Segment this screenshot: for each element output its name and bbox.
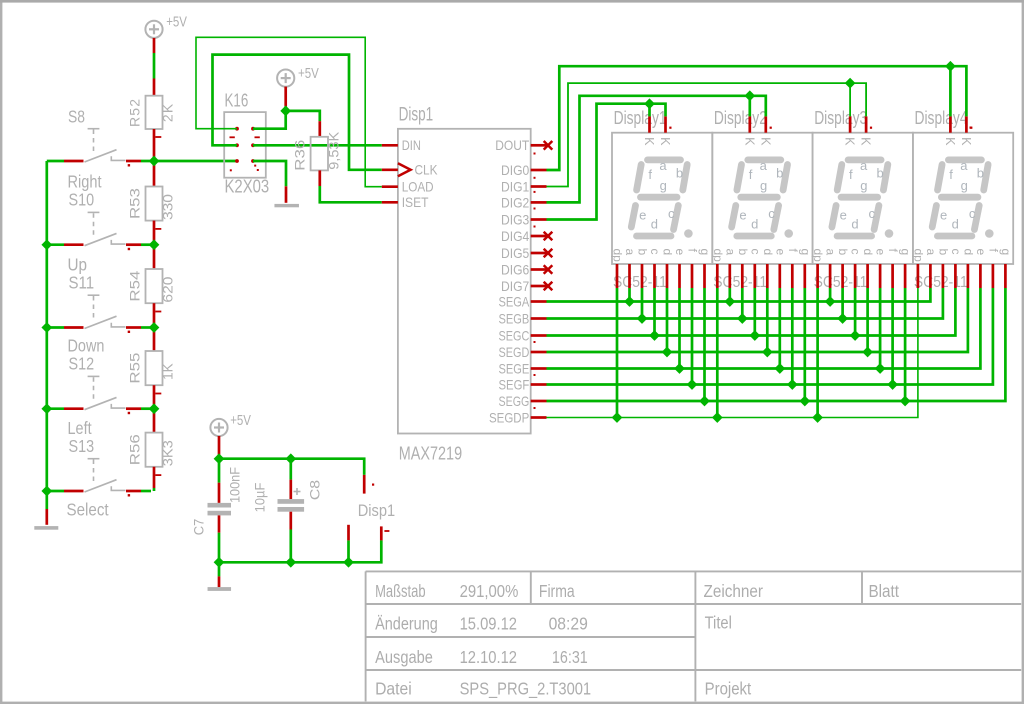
pin K K common cathodes (Display1) [650,116,666,132]
wire R53 bottom to junction [153,221,156,245]
wire R55 bottom to junction [153,385,156,409]
svg-text:DIG1: DIG1 [501,178,529,194]
pin DIG0 (MAX7219 right) [531,169,547,172]
no-connect X (DIG6) [544,265,553,274]
no-connect X (DIG7) [544,282,553,291]
svg-text:330: 330 [160,194,176,220]
junction SEGG at x=704 [699,396,710,407]
wire K16 pin1b to +5V [253,111,286,129]
junction SEGF at x=692 [687,379,698,390]
junction SEGB at x=742 [737,313,748,324]
svg-text:3K3: 3K3 [160,440,176,466]
svg-text:e: e [739,208,746,223]
svg-text:Display1: Display1 [614,108,667,128]
junction resistor column y=244.7 [149,239,160,250]
svg-text:b: b [836,249,850,256]
svg-text:e: e [874,249,888,256]
svg-text:SEGF: SEGF [499,376,530,392]
wire left bus vertical [45,161,48,491]
svg-text:c: c [668,206,675,221]
pin number specks (MAX7219) [534,153,536,410]
svg-text:Down: Down [68,336,105,356]
pin labels K K (Display1) [642,137,672,146]
svg-text:+5V: +5V [230,413,251,429]
svg-text:K: K [843,137,857,146]
svg-text:Zeichner: Zeichner [704,581,764,601]
junction SEGDP at x=717 [712,412,723,423]
wire SEGA net [547,288,931,302]
pin CLK (MAX7219 left) [382,168,398,171]
junction SEGE at x=880 [875,363,886,374]
wire SEGF net [547,288,993,385]
svg-text:SEGDP: SEGDP [489,409,529,425]
pin SEGC (MAX7219 right) [531,334,547,337]
resistor R52 [146,96,163,129]
pin DIG6 (MAX7219 right) [531,268,547,271]
resistor R54 [146,269,163,303]
junction SEGF at x=893 [887,379,898,390]
pin number speck (Display3 K pins) [870,127,872,129]
wire K16 pin3b to ground [253,161,286,203]
pin K16 row3 right [251,159,255,163]
svg-text:ISET: ISET [402,194,429,210]
svg-text:a: a [860,158,868,173]
svg-text:9,53K: 9,53K [326,131,342,170]
svg-text:g: g [999,249,1013,256]
pin DIG1 (MAX7219 right) [531,185,547,188]
svg-text:12.10.12: 12.10.12 [460,647,517,667]
svg-text:g: g [961,178,968,193]
svg-text:LOAD: LOAD [402,179,434,195]
pin wire R52 bottom [153,129,156,165]
svg-text:Display3: Display3 [814,108,867,128]
junction DIG1 at Display3 [845,78,856,89]
svg-text:c: c [949,249,963,255]
capacitor C8 [278,459,305,563]
svg-text:Maßstab: Maßstab [375,581,426,601]
junction SEGD at x=667 [662,347,673,358]
pin DIN (MAX7219 left) [382,144,398,147]
svg-text:Display4: Display4 [915,108,968,128]
pin number speck (Display2 K pins) [770,127,772,129]
svg-text:620: 620 [160,276,176,302]
wire junction to R54 top [153,248,156,269]
svg-text:Ausgabe: Ausgabe [375,647,433,667]
switch S12 [47,376,151,414]
wire CLK loop (K16 pin2a to MAX7219 CLK) [213,55,382,170]
wire S8 row to K16 pin [141,160,237,163]
svg-text:DIG6: DIG6 [501,261,529,277]
wire junction to R53 top [153,165,156,187]
svg-text:b: b [676,166,683,181]
svg-text:dp: dp [711,249,725,263]
svg-text:R55: R55 [127,352,143,383]
junction DIG0 at Display4 [945,61,956,72]
connector K16 box [224,112,266,178]
wire Select row to ground [45,491,48,525]
wire junction to R55 top [153,331,156,351]
resistor R36 [311,137,328,171]
junction rail at C8 [285,453,296,464]
wire rail to ground [218,562,221,587]
svg-text:Änderung: Änderung [375,614,438,634]
svg-text:15.09.12: 15.09.12 [460,614,517,634]
junction SEGA at x=830 [825,296,836,307]
junction SEGA at x=630 [624,296,635,307]
svg-text:K: K [943,137,957,146]
svg-text:DIG4: DIG4 [501,228,529,244]
svg-text:Firma: Firma [539,581,575,601]
pin DIG7 (MAX7219 right) [531,285,547,288]
pin mark R54 [155,311,161,313]
pin K16 row3 left [235,159,239,163]
svg-text:e: e [840,208,847,223]
svg-text:b: b [736,249,750,256]
svg-text:a: a [960,158,968,173]
svg-text:SC52-11: SC52-11 [713,274,767,291]
svg-text:R53: R53 [127,188,143,219]
svg-text:dp: dp [611,249,625,263]
svg-text:c: c [748,249,762,255]
svg-text:b: b [636,249,650,256]
pin labels K K (Display2) [742,137,772,146]
svg-text:K: K [658,137,672,146]
pin DIG3 (MAX7219 right) [531,218,547,221]
wire SEGB net [547,288,943,319]
svg-text:DIN: DIN [402,137,421,153]
junction SEGF at x=792 [787,379,798,390]
junction SEGE at x=780 [774,363,785,374]
pin SEGB (MAX7219 right) [531,317,547,320]
svg-text:b: b [876,166,883,181]
svg-text:d: d [751,217,758,232]
svg-text:SEGA: SEGA [499,293,530,309]
svg-text:f: f [648,167,652,182]
svg-text:S8: S8 [68,107,85,127]
display Display4 box (SC52-11) [913,133,1013,264]
svg-text:b: b [977,166,984,181]
pin K K common cathodes (Display3) [850,116,866,132]
power +5V supply symbol (C7/C8) [210,419,227,436]
svg-text:d: d [661,249,675,256]
svg-text:R56: R56 [127,434,143,465]
svg-text:SEGC: SEGC [499,327,530,343]
segment pin stubs (Display1) [617,264,705,288]
wire +5V to R36 top [286,111,320,137]
display Display2 box (SC52-11) [712,133,812,264]
junction DIG2 at Display2 [744,90,755,101]
junction SEGDP at x=818 [812,412,823,423]
pin DIG4 (MAX7219 right) [531,235,547,238]
segment letters (Display3) [840,158,884,232]
svg-text:C7: C7 [191,519,207,536]
svg-text:f: f [849,167,853,182]
svg-text:d: d [851,217,858,232]
pin K16 row2 left [235,143,239,147]
pin name row dp..g (Display1) [611,249,713,263]
svg-text:R54: R54 [127,270,143,301]
svg-text:d: d [651,217,658,232]
svg-text:K: K [859,137,873,146]
no-connect X (DIG5) [544,249,553,258]
pin mark near Disp1 port [372,484,389,532]
junction resistor column y=161 [149,156,160,167]
wire +5V to rail [218,436,221,459]
svg-text:a: a [723,249,737,256]
pin SEGF (MAX7219 right) [531,383,547,386]
svg-text:100nF: 100nF [227,467,243,503]
svg-text:e: e [639,208,646,223]
pin K16 row2 right [251,143,255,147]
svg-text:g: g [660,178,667,193]
svg-text:d: d [952,217,959,232]
wire +5V to R52 [153,38,156,96]
no-connect X (DOUT) [544,141,553,150]
wire SEGG net [547,288,1006,401]
seven-segment digit (Display1) [631,160,692,238]
junction bottom rail at C8 [285,557,296,568]
resistor R53 [146,187,163,221]
wire DIN (K16 pin2b to MAX7219 DIN) [253,144,382,147]
title block frame [366,571,1022,701]
svg-text:DIG5: DIG5 [501,245,529,261]
pin K16 row1 left [235,127,239,131]
junction SEGD at x=868 [862,347,873,358]
wire bottom rail [219,526,381,562]
wire +5V rail to Disp1 port [219,459,364,494]
resistor R56 [146,433,163,467]
junction left bus y=408.7 [41,403,52,414]
svg-text:d: d [961,249,975,256]
pin mark R52 [155,136,161,138]
svg-text:SC52-11: SC52-11 [914,274,968,291]
junction +5V node [280,106,291,117]
switch S8 [47,129,141,167]
svg-text:a: a [824,249,838,256]
junction resistor column y=408.7 [149,403,160,414]
svg-text:2K: 2K [160,103,176,123]
svg-text:d: d [861,249,875,256]
svg-text:g: g [698,249,712,256]
svg-text:Left: Left [68,418,92,438]
svg-text:Titel: Titel [705,613,732,633]
display Display1 box (SC52-11) [612,133,712,264]
svg-text:S11: S11 [69,273,95,293]
wire R56 bottom elbow to Select row [153,467,156,491]
junction bottom rail at C7 [214,557,225,568]
pin number speck (Display1 K pins) [669,127,671,129]
pin name row dp..g (Display4) [911,249,1013,263]
seven-segment digit (Display4) [932,160,993,238]
pin number speck near Display4 K pin [970,127,972,129]
segment pin stubs (Display2) [717,264,805,288]
svg-text:S10: S10 [69,190,95,210]
junction resistor column y=327.5 [149,322,160,333]
pin number marks K16 [230,137,260,171]
pin mark R56 [155,474,161,476]
svg-text:a: a [924,249,938,256]
pin number speck (Display4 K pins) [970,127,972,129]
junction left bus y=244.7 [41,239,52,250]
switch S11 [47,295,151,333]
svg-text:1K: 1K [160,363,176,380]
junction SEGC at x=654 [649,330,660,341]
junction left bus y=491 [41,486,52,497]
svg-text:e: e [673,249,687,256]
wire junction to R56 top [153,412,156,432]
svg-text:10µF: 10µF [252,483,268,513]
wire +5V stub [284,87,287,111]
svg-text:Projekt: Projekt [705,678,752,698]
svg-text:c: c [648,249,662,255]
seven-segment digit (Display2) [732,160,793,238]
wire DIG1 net to Display3 [547,83,867,186]
junction SEGB at x=642 [637,313,648,324]
svg-text:Display2: Display2 [714,108,767,128]
wire DIG0 net to Display4 [547,66,967,170]
svg-text:c: c [969,206,976,221]
junction SEGG at x=805 [799,396,810,407]
svg-text:SEGE: SEGE [499,360,530,376]
junction SEGG at x=905 [900,396,911,407]
junction SEGA at x=730 [724,296,735,307]
junction SEGD at x=767 [762,347,773,358]
svg-text:R52: R52 [127,98,143,127]
junction rail at C7 [214,453,225,464]
pin mark R53 [155,228,161,230]
junction SEGDP at x=617 [612,412,623,423]
polarity + (C8) [294,488,301,495]
svg-text:g: g [860,178,867,193]
svg-text:g: g [760,178,767,193]
svg-text:K2X03: K2X03 [225,177,270,197]
svg-text:SEGD: SEGD [499,344,530,360]
seven-segment digit (Display3) [832,160,893,238]
pin labels K K (Display4) [943,137,973,146]
svg-text:Disp1: Disp1 [399,104,434,126]
svg-text:SC52-11: SC52-11 [814,274,868,291]
svg-text:b: b [776,166,783,181]
clock chevron (CLK pin) [398,163,411,176]
svg-text:a: a [760,158,768,173]
wire DIG3 net to Display1 [547,104,666,220]
svg-text:c: c [768,206,775,221]
pin name row dp..g (Display2) [711,249,813,263]
pin ISET (MAX7219 left) [382,201,398,204]
svg-text:SEGG: SEGG [499,393,530,409]
pin SEGD (MAX7219 right) [531,351,547,354]
svg-text:e: e [940,208,947,223]
op-amp? no - IC Disp1 MAX7219 box [398,129,531,434]
junction left bus y=327.5 [41,322,52,333]
pin SEGG (MAX7219 right) [531,400,547,403]
svg-text:Select: Select [67,499,109,519]
svg-text:08:29: 08:29 [549,614,588,634]
wire DIG2 net to Display2 [547,96,766,203]
wire SEGD net [547,288,968,352]
junction SEGB at x=843 [837,313,848,324]
pin DIG2 (MAX7219 right) [531,201,547,204]
switch S10 [47,212,151,250]
wire SEGC net [547,288,956,336]
svg-text:SEGB: SEGB [499,310,530,326]
wire SEGE net [547,288,981,369]
wire R54 bottom to junction [153,303,156,327]
junction DIG3 at Display1 [644,98,655,109]
svg-text:+5V: +5V [298,66,319,82]
svg-text:K: K [959,137,973,146]
segment letters (Display2) [739,158,783,232]
svg-text:DIG3: DIG3 [501,211,529,227]
svg-text:e: e [773,249,787,256]
svg-text:b: b [936,249,950,256]
svg-text:DIG7: DIG7 [501,278,529,294]
svg-text:R36: R36 [292,139,308,170]
wire LOAD loop (K16 pin1a to MAX7219 LOAD) [196,37,382,186]
pin K K common cathodes (Display4) [950,116,966,132]
svg-text:d: d [761,249,775,256]
svg-text:K: K [758,137,772,146]
svg-text:K: K [742,137,756,146]
svg-text:CLK: CLK [415,162,439,178]
svg-text:DOUT: DOUT [495,137,529,153]
wire SEGDP net [547,288,918,418]
svg-text:291,00%: 291,00% [460,581,519,601]
junction SEGC at x=755 [749,330,760,341]
pin LOAD (MAX7219 left) [382,185,398,188]
svg-text:Up: Up [68,255,88,275]
svg-text:c: c [849,249,863,255]
segment pin stubs (Display4) [918,264,1006,288]
pin SEGDP (MAX7219 right) [531,416,547,419]
svg-text:S13: S13 [69,436,95,456]
ground (left column) [34,526,58,530]
display Display3 box (SC52-11) [813,133,913,264]
svg-text:g: g [798,249,812,256]
pin K16 row1 right [251,127,255,131]
pin K K common cathodes (Display2) [750,116,766,132]
svg-text:DIG0: DIG0 [501,162,529,178]
svg-text:DIG2: DIG2 [501,194,529,210]
pin labels K K (Display3) [843,137,873,146]
junction SEGE at x=680 [674,363,685,374]
power +5V supply symbol (near K16) [277,70,294,87]
svg-text:e: e [974,249,988,256]
ground (C7/C8) [208,587,232,591]
svg-text:a: a [623,249,637,256]
svg-text:dp: dp [911,249,925,263]
svg-text:SPS_PRG_2.T3001: SPS_PRG_2.T3001 [460,678,591,698]
pin DIG5 (MAX7219 right) [531,252,547,255]
svg-text:S12: S12 [69,354,95,374]
pin name row dp..g (Display3) [811,249,913,263]
svg-text:K16: K16 [225,90,249,110]
pin mark R55 [155,393,161,395]
svg-text:g: g [899,249,913,256]
switch S13 [47,459,151,497]
ground (K16) [274,204,299,207]
junction SEGC at x=855 [850,330,861,341]
svg-text:+5V: +5V [166,14,187,30]
resistor R55 [146,351,163,385]
svg-text:K: K [642,137,656,146]
svg-text:c: c [869,206,876,221]
svg-text:a: a [659,158,667,173]
pin DOUT (MAX7219 right) [531,144,547,147]
svg-text:MAX7219: MAX7219 [399,443,462,464]
power +5V supply symbol (top left) [145,21,162,38]
svg-text:dp: dp [811,249,825,263]
